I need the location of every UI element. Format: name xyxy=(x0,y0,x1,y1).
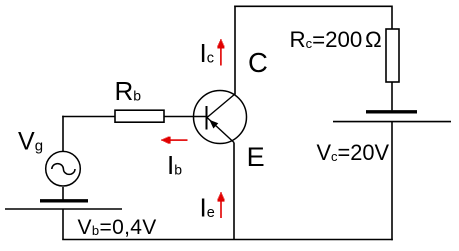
wire resistor to battery xyxy=(391,82,393,110)
current arrow Ie xyxy=(218,192,225,218)
svg-text:E: E xyxy=(247,142,265,172)
svg-text:Rb: Rb xyxy=(115,76,142,106)
transistor Q1 emitter arrowhead xyxy=(209,120,218,129)
svg-text:Ib: Ib xyxy=(167,150,182,180)
battery Vb thin plate xyxy=(5,208,122,210)
wire battery to bottom rail xyxy=(62,210,64,240)
wire emitter vertical xyxy=(233,143,235,240)
svg-text:Ic: Ic xyxy=(200,38,214,68)
transistor Q1 base bar xyxy=(206,106,208,130)
svg-text:Vc=20V: Vc=20V xyxy=(317,140,390,165)
wire right vertical lower xyxy=(391,122,393,240)
wire top rail xyxy=(234,5,392,7)
current arrow Ib xyxy=(161,137,187,144)
wire base right segment xyxy=(164,116,207,118)
wire collector vertical xyxy=(234,6,236,95)
resistor Rb body xyxy=(115,110,164,122)
svg-text:C: C xyxy=(248,47,268,78)
source Vg sine wave xyxy=(52,164,75,175)
wire bottom rail xyxy=(62,239,393,241)
battery Vc thick plate xyxy=(366,110,417,113)
transistor Q1 emitter diagonal xyxy=(207,118,234,143)
svg-text:Ie: Ie xyxy=(200,193,215,223)
battery Vc thin plate xyxy=(333,121,451,123)
wire source to battery xyxy=(62,187,64,200)
transistor Q1 collector diagonal xyxy=(207,94,235,118)
current arrow Ic xyxy=(217,39,224,65)
svg-text:Vb=0,4V: Vb=0,4V xyxy=(78,216,157,239)
battery Vb thick plate xyxy=(40,199,88,202)
svg-text:Rc=200Ω: Rc=200Ω xyxy=(290,27,382,52)
resistor Rc body xyxy=(386,29,399,82)
source Vg circle xyxy=(46,151,81,186)
wire right vertical upper xyxy=(391,6,393,30)
wire Vg vertical upper xyxy=(62,116,64,152)
transistor Q1 circle xyxy=(194,91,247,144)
svg-text:Vg: Vg xyxy=(18,128,43,156)
wire base left segment xyxy=(62,116,115,118)
